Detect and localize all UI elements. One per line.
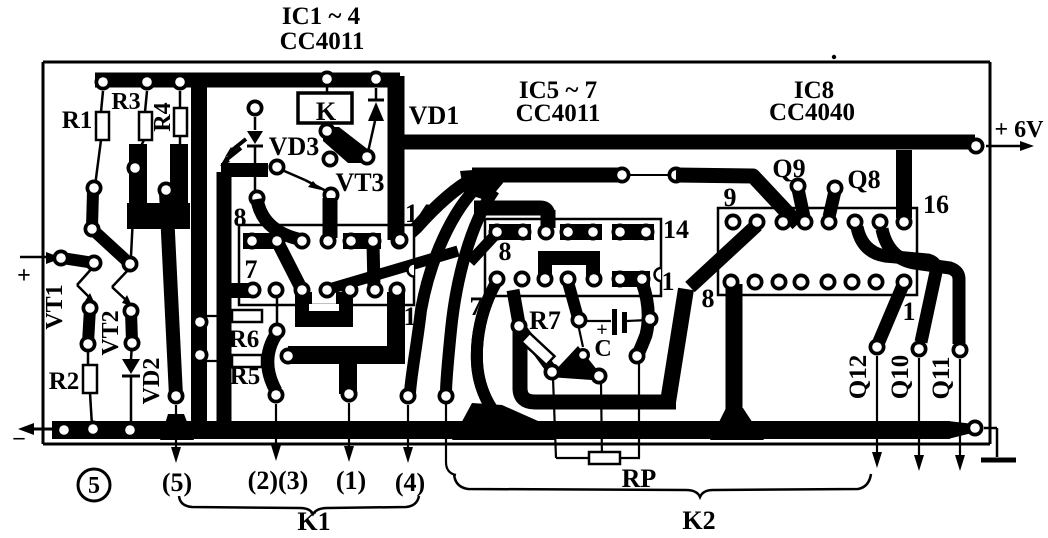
svg-text:K1: K1: [297, 507, 330, 536]
svg-text:Q9: Q9: [772, 154, 805, 183]
svg-text:K: K: [316, 97, 337, 126]
svg-text:RP: RP: [622, 464, 657, 493]
svg-text:VT2: VT2: [98, 310, 124, 355]
svg-text:8: 8: [234, 203, 247, 232]
svg-text:R3: R3: [111, 89, 140, 115]
svg-text:R5: R5: [230, 363, 261, 390]
svg-text:VD1: VD1: [409, 101, 460, 130]
svg-text:14: 14: [405, 199, 431, 228]
svg-text:(4): (4): [395, 468, 425, 497]
svg-text:+: +: [596, 319, 607, 341]
svg-text:K2: K2: [682, 506, 715, 535]
svg-text:IC1 ~ 4: IC1 ~ 4: [282, 3, 361, 30]
svg-text:(2)(3): (2)(3): [248, 466, 309, 495]
svg-text:1: 1: [903, 297, 916, 326]
svg-text:VD2: VD2: [139, 358, 165, 405]
svg-text:CC4040: CC4040: [769, 99, 855, 126]
svg-text:CC4011: CC4011: [280, 28, 365, 55]
svg-text:R6: R6: [229, 326, 260, 353]
svg-text:R2: R2: [49, 368, 80, 395]
svg-text:(1): (1): [336, 466, 366, 495]
svg-text:Q10: Q10: [887, 355, 914, 399]
svg-text:5: 5: [88, 473, 100, 499]
svg-text:7: 7: [470, 292, 483, 321]
svg-text:+ 6V: + 6V: [994, 117, 1044, 143]
svg-text:9: 9: [724, 183, 737, 212]
svg-text:Q11: Q11: [928, 356, 955, 399]
svg-text:Q8: Q8: [847, 165, 880, 194]
svg-text:CC4011: CC4011: [516, 100, 601, 127]
svg-text:16: 16: [923, 190, 949, 219]
svg-text:VT1: VT1: [42, 284, 68, 329]
svg-text:8: 8: [499, 237, 512, 266]
svg-text:14: 14: [663, 215, 689, 244]
svg-text:8: 8: [702, 284, 715, 313]
svg-text:+: +: [17, 263, 31, 289]
svg-text:Q12: Q12: [845, 355, 872, 399]
svg-text:(5): (5): [162, 468, 192, 497]
svg-text:R1: R1: [62, 107, 93, 134]
svg-text:R7: R7: [529, 306, 561, 335]
svg-text:1: 1: [404, 302, 417, 331]
svg-text:VD3: VD3: [269, 132, 320, 161]
svg-text:1: 1: [662, 267, 675, 296]
svg-text:7: 7: [245, 255, 258, 284]
svg-text:VT3: VT3: [335, 168, 384, 197]
svg-text:R4: R4: [150, 102, 176, 131]
svg-text:–: –: [13, 424, 26, 449]
